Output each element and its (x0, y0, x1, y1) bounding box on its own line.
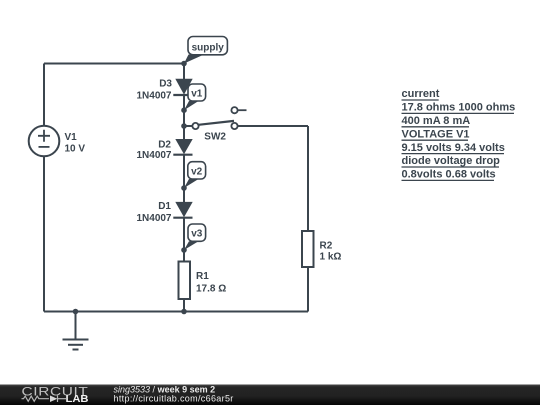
voltage source V1 (29, 126, 60, 157)
wire switch throw to right bus (238, 125, 308, 127)
svg-text:v2: v2 (191, 166, 203, 177)
wire supply node to D3 anode (183, 64, 185, 81)
wire left bus upper (top corner down to V1 plus terminal) (43, 64, 45, 126)
diode D1 (173, 202, 192, 218)
wire D2 cathode to node v2 (183, 155, 185, 188)
svg-text:1N4007: 1N4007 (136, 150, 171, 161)
wire top horizontal from V1 to supply node (44, 63, 184, 65)
svg-text:current: current (402, 88, 440, 100)
svg-text:V1: V1 (65, 132, 78, 143)
annotation text block (402, 88, 516, 180)
wire D1 cathode to node v3 (183, 218, 185, 250)
ground (63, 340, 89, 350)
svg-text:v3: v3 (191, 229, 203, 240)
junction dot R1 bottom (181, 309, 187, 315)
node supply flag (184, 37, 227, 64)
wire R1 bottom to bottom rail (183, 299, 185, 312)
node v2 flag (184, 162, 206, 188)
svg-text:D1: D1 (158, 201, 171, 212)
junction dot v3 (181, 247, 187, 253)
svg-text:400 mA 8 mA: 400 mA 8 mA (402, 115, 471, 127)
svg-text:SW2: SW2 (204, 132, 226, 143)
wire left bus lower (V1 minus terminal down to bottom rail) (43, 156, 45, 311)
junction dot ground tap (73, 309, 79, 315)
svg-text:1N4007: 1N4007 (136, 213, 171, 224)
junction dot supply node (181, 61, 187, 67)
svg-text:10 V: 10 V (65, 143, 86, 154)
junction dot switch branch (181, 123, 187, 129)
svg-text:VOLTAGE V1: VOLTAGE V1 (402, 128, 470, 140)
svg-text:1 kΩ: 1 kΩ (320, 252, 342, 263)
CircuitLab logo resistor-diode symbol (22, 396, 67, 403)
svg-text:R2: R2 (320, 240, 333, 251)
wire node v2 to D1 anode (183, 188, 185, 204)
wire right bus upper (to R2 top) (307, 126, 309, 231)
resistor R1 (179, 262, 191, 300)
wire bottom rail (44, 311, 308, 313)
switch SW2 (192, 107, 246, 129)
svg-text:1N4007: 1N4007 (136, 90, 171, 101)
svg-text:diode voltage drop: diode voltage drop (402, 155, 501, 167)
svg-text:v1: v1 (191, 89, 203, 100)
node v3 flag (184, 224, 206, 250)
junction dot v1 (181, 107, 187, 113)
svg-text:17.8 ohms 1000 ohms: 17.8 ohms 1000 ohms (402, 102, 516, 114)
diode D3 (173, 79, 192, 95)
wire node v1 to switch junction (183, 110, 185, 126)
diode D2 (173, 139, 192, 155)
svg-text:9.15 volts 9.34 volts: 9.15 volts 9.34 volts (402, 142, 505, 154)
junction dot v2 (181, 185, 187, 191)
svg-text:D2: D2 (158, 139, 171, 150)
svg-text:17.8 Ω: 17.8 Ω (196, 283, 226, 294)
resistor R2 (302, 231, 314, 267)
svg-text:supply: supply (192, 43, 225, 54)
svg-text:R1: R1 (196, 271, 209, 282)
node v1 flag (184, 84, 206, 110)
wire right bus lower (R2 bottom to bottom rail) (307, 267, 309, 312)
svg-text:http://circuitlab.com/c66ar5r: http://circuitlab.com/c66ar5r (114, 393, 234, 403)
wire switch pole branch (184, 125, 192, 127)
wire ground stub (75, 312, 77, 340)
svg-text:LAB: LAB (66, 394, 89, 405)
wire D3 cathode to node v1 (183, 95, 185, 110)
wire switch junction to D2 anode (183, 126, 185, 141)
svg-text:0.8volts 0.68 volts: 0.8volts 0.68 volts (402, 169, 496, 181)
svg-text:D3: D3 (159, 78, 172, 89)
wire node v3 to R1 top (183, 250, 185, 262)
